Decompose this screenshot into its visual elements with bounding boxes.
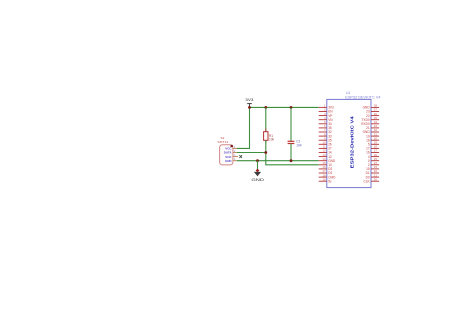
S2 pin 4 (GND) <box>233 158 237 161</box>
U1 pin 17 (D3) <box>319 169 333 175</box>
U1 pin 3 (VP) <box>319 112 333 118</box>
svg-text:20: 20 <box>374 177 378 181</box>
svg-text:104: 104 <box>296 144 302 148</box>
U1 pin 11 (27) <box>319 145 332 151</box>
wire 3V3 rail <box>250 106 319 108</box>
svg-text:SHT11: SHT11 <box>217 140 228 144</box>
module U1 ESP32-DevKitC V4 box <box>327 91 381 187</box>
svg-text:ESP32-DevKitC V4: ESP32-DevKitC V4 <box>350 115 355 168</box>
no-connect X on SCK <box>239 155 242 158</box>
U1 pin 19 (5V) <box>319 177 332 183</box>
U1 pin 32 (GND) <box>363 128 379 134</box>
svg-text:10k: 10k <box>269 138 275 142</box>
U1 pin 21 (D0) <box>366 173 380 179</box>
svg-text:ESP32 DEVKITC V4: ESP32 DEVKITC V4 <box>345 95 380 99</box>
U1 pin 34 (RXD0) <box>361 120 379 126</box>
svg-text:GND: GND <box>225 159 233 163</box>
wire 3V3 down to sensor VCC <box>237 107 250 148</box>
U1 pin 5 (34) <box>319 120 332 126</box>
U1 pin 16 (D2) <box>319 165 333 171</box>
U1 pin 33 (21) <box>366 124 379 130</box>
U1 pin 6 (35) <box>319 124 332 130</box>
U1 pin 15 (13) <box>319 161 332 167</box>
U1 pin 25 (0) <box>368 157 379 163</box>
svg-text:5v: 5v <box>328 179 332 183</box>
svg-text:CLK: CLK <box>363 179 370 183</box>
U1 pin 8 (33) <box>319 132 332 138</box>
capacitor C1 <box>288 107 302 160</box>
U1 pin 24 (2) <box>368 161 379 167</box>
junction at R1 top <box>264 106 267 109</box>
U1 pin 38 (GND) <box>363 104 379 110</box>
U1 pin 2 (EN) <box>319 108 334 114</box>
U1 pin 18 (CMD) <box>319 173 336 179</box>
U1 pin 4 (VN) <box>319 116 334 122</box>
U1 pin 29 (5) <box>368 141 379 147</box>
junction at C1 top <box>290 106 293 109</box>
junction C1 bottom <box>290 159 293 162</box>
resistor R1 <box>264 107 275 152</box>
junction GND symbol <box>256 159 259 162</box>
junction DATA/R1 <box>264 151 267 154</box>
U1 pin 7 (32) <box>319 128 332 134</box>
U1 pin 14 (GND) <box>319 157 336 163</box>
U1 pin 26 (4) <box>368 153 379 159</box>
U1 pin 13 (12) <box>319 153 332 159</box>
U1 pin 20 (CLK) <box>363 177 379 183</box>
junction at 3V3 stem <box>248 106 251 109</box>
U1 pin 37 (23) <box>366 108 379 114</box>
U1 pin 22 (D1) <box>366 169 380 175</box>
sensor S2 SHT11 <box>217 136 233 165</box>
ground symbol <box>251 161 264 182</box>
svg-text:19: 19 <box>322 177 326 181</box>
U1 pin 27 (16) <box>366 149 379 155</box>
U1 pin 12 (14) <box>319 149 332 155</box>
S2 pin 1 (VCC) <box>233 146 237 149</box>
power symbol 3V3 <box>245 98 253 107</box>
U1 pin 1 (3V3) <box>319 104 334 110</box>
S2 pin 3 (SCK) <box>233 154 238 157</box>
U1 pin 10 (26) <box>319 141 332 147</box>
U1 pin 31 (19) <box>366 132 379 138</box>
U1 pin 28 (17) <box>366 145 379 151</box>
U1 pin 30 (18) <box>366 136 379 142</box>
S2 pin 2 (DATA) <box>233 150 237 153</box>
U1 pin 9 (25) <box>319 136 332 142</box>
wire DATA: sensor pin2 to R1 bottom then down to IO13 <box>237 153 319 165</box>
svg-text:3V3: 3V3 <box>245 98 253 102</box>
U1 pin 23 (15) <box>366 165 379 171</box>
U1 pin 35 (TXD0) <box>362 116 380 122</box>
U1 pin 36 (22) <box>366 112 379 118</box>
svg-text:GND: GND <box>251 177 264 182</box>
wire GND rail <box>237 160 319 162</box>
